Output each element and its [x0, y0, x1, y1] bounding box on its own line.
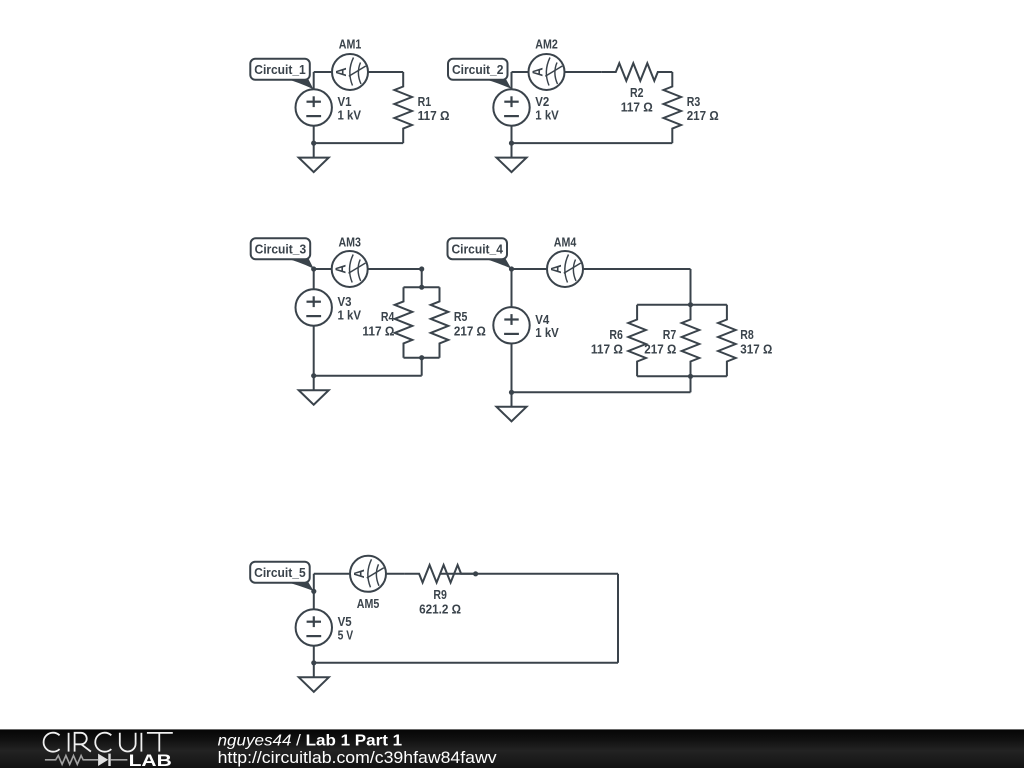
svg-text:A: A: [530, 67, 547, 76]
svg-text:LAB: LAB: [129, 752, 172, 768]
svg-text:1 kV: 1 kV: [535, 107, 559, 122]
svg-text:AM4: AM4: [554, 235, 577, 250]
svg-text:217 Ω: 217 Ω: [687, 108, 719, 123]
svg-text:R6: R6: [609, 327, 623, 342]
svg-text:117 Ω: 117 Ω: [418, 108, 450, 123]
svg-text:117 Ω: 117 Ω: [591, 341, 623, 356]
svg-text:Circuit_1: Circuit_1: [254, 62, 306, 77]
svg-text:1 kV: 1 kV: [535, 325, 559, 340]
svg-text:1 kV: 1 kV: [338, 307, 362, 322]
svg-text:Circuit_4: Circuit_4: [451, 241, 503, 256]
svg-text:621.2 Ω: 621.2 Ω: [419, 601, 461, 616]
svg-text:AM5: AM5: [357, 596, 380, 611]
svg-text:217 Ω: 217 Ω: [454, 323, 486, 338]
svg-text:A: A: [548, 264, 565, 273]
svg-text:A: A: [351, 569, 368, 578]
svg-text:AM3: AM3: [338, 235, 361, 250]
svg-text:nguyes44 / Lab 1 Part 1: nguyes44 / Lab 1 Part 1: [218, 733, 403, 750]
svg-text:R7: R7: [663, 327, 677, 342]
svg-text:A: A: [333, 264, 350, 273]
svg-text:5 V: 5 V: [338, 627, 354, 642]
svg-text:117 Ω: 117 Ω: [621, 99, 653, 114]
svg-text:R4: R4: [381, 309, 395, 324]
svg-text:R1: R1: [418, 94, 432, 109]
svg-text:R2: R2: [630, 85, 644, 100]
svg-text:Circuit_2: Circuit_2: [452, 62, 504, 77]
svg-text:Circuit_3: Circuit_3: [255, 242, 307, 257]
svg-text:R9: R9: [433, 587, 447, 602]
svg-text:R8: R8: [740, 327, 754, 342]
svg-text:R5: R5: [454, 309, 468, 324]
svg-text:1 kV: 1 kV: [338, 107, 362, 122]
svg-text:117 Ω: 117 Ω: [362, 323, 394, 338]
svg-text:AM1: AM1: [339, 37, 362, 52]
svg-text:217 Ω: 217 Ω: [644, 341, 676, 356]
svg-text:http://circuitlab.com/c39hfaw8: http://circuitlab.com/c39hfaw84fawv: [218, 748, 498, 767]
svg-text:AM2: AM2: [535, 37, 558, 52]
svg-text:Circuit_5: Circuit_5: [254, 565, 306, 580]
svg-text:R3: R3: [687, 94, 701, 109]
svg-text:317 Ω: 317 Ω: [740, 341, 772, 356]
svg-text:A: A: [333, 67, 350, 76]
